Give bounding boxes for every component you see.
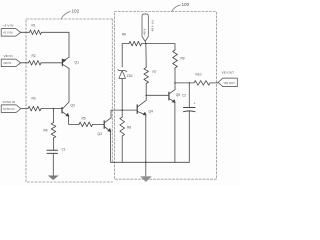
svg-text:R8: R8 [127, 126, 131, 130]
resistor R7 [144, 68, 149, 84]
node Q5 base junction [145, 95, 147, 97]
wire C1 to ground [52, 153, 54, 176]
svg-text:102: 102 [72, 9, 80, 14]
svg-text:C2: C2 [182, 94, 186, 98]
wire Q2 emitter to R5 [69, 116, 79, 124]
wire R5 to Q3 base [93, 123, 105, 125]
label 102 leader [61, 12, 71, 20]
wire Q3 emitter down to rail [110, 131, 112, 162]
wire C2 to rail [188, 111, 190, 162]
svg-text:SYNC IN: SYNC IN [3, 107, 14, 111]
resistor R4 [51, 123, 56, 139]
wire supply junction down to R7 [145, 44, 147, 68]
svg-text:ZD1: ZD1 [127, 74, 133, 78]
wire R4 to C1 [53, 138, 55, 150]
wire Q4 emitter to rail [145, 115, 147, 162]
svg-text:Q1: Q1 [75, 61, 80, 65]
wire R6 corner down to zener [121, 44, 123, 67]
svg-text:R7: R7 [153, 70, 157, 74]
svg-text:C1: C1 [62, 148, 66, 152]
svg-text:+: + [194, 102, 196, 106]
input flag J1 (+5V) [1, 29, 20, 36]
ground (left) [48, 176, 58, 180]
transistor Q1 [61, 59, 63, 66]
transistor Q3 [103, 121, 105, 129]
capacitor C1 [47, 150, 58, 153]
ground (right) [141, 177, 152, 182]
svg-text:Q2: Q2 [71, 104, 76, 108]
wire supply rail left [122, 43, 146, 45]
svg-text:Q4: Q4 [149, 110, 154, 114]
transistor Q5 [168, 92, 170, 100]
wire flag tip to supply rail [144, 41, 147, 43]
svg-text:100: 100 [182, 2, 190, 7]
dashed box 102 [26, 19, 112, 182]
resistor R1 [30, 30, 42, 35]
node output junction [174, 82, 176, 84]
wire zener down through node to R8 [121, 78, 123, 117]
svg-text:R2: R2 [32, 54, 36, 58]
resistor R2 [29, 61, 42, 66]
svg-text:R10: R10 [196, 73, 202, 77]
supply flag (+48V) [142, 14, 148, 41]
wire output node down to Q5 collector [174, 83, 176, 90]
svg-text:R9: R9 [181, 57, 185, 61]
transistor Q4 [136, 105, 138, 114]
dashed box 100 [115, 12, 217, 180]
wire R9 to output node [174, 68, 176, 83]
wire R7 to Q4 collector [145, 84, 147, 101]
wire R3 to Q2 base [41, 108, 62, 110]
svg-text:+5 V IN: +5 V IN [3, 24, 13, 28]
wire Q1 collector to Q2 collector [68, 68, 70, 102]
node rail/ground [145, 161, 147, 163]
svg-text:Q5: Q5 [176, 93, 181, 97]
svg-text:R6: R6 [122, 33, 126, 37]
wire R1 to Q1 emitter [42, 32, 70, 57]
svg-text:+5 V IN: +5 V IN [3, 31, 12, 35]
transistor Q2 [61, 108, 63, 114]
wire Q3 collector up and right to Q4 base [111, 110, 137, 118]
wire flag1 to R1 [21, 31, 30, 33]
wire R2 to Q1 base [41, 62, 62, 64]
wire flag3 to R3 [21, 108, 28, 110]
wire rail to ground [145, 162, 147, 177]
svg-text:48 V (+): 48 V (+) [151, 20, 155, 31]
svg-text:R5: R5 [82, 117, 86, 121]
svg-text:Q3: Q3 [98, 132, 103, 136]
resistor R9 [173, 50, 178, 68]
wire Q4 collector node to Q5 base [146, 94, 169, 96]
resistor R6 [129, 41, 142, 46]
svg-text:VID OUT: VID OUT [224, 81, 236, 85]
resistor R10 [194, 81, 210, 86]
wire output node to R10 [175, 82, 194, 84]
bottom rail wire [111, 161, 190, 163]
output flag (VID OUT) [218, 78, 237, 87]
label 100 leader [172, 5, 181, 12]
capacitor C2 [188, 83, 190, 108]
wire Q5 emitter to rail [174, 102, 176, 162]
resistor R8 [120, 117, 125, 136]
resistor R3 [28, 106, 41, 111]
input flag J3 (SYNC) [1, 105, 21, 113]
wire junction down to R4 [53, 109, 55, 123]
svg-text:R4: R4 [44, 129, 48, 133]
input flag J2 (VID IN) [1, 59, 20, 67]
svg-text:VID IN: VID IN [4, 54, 13, 58]
resistor R5 [79, 122, 93, 127]
wire R8 to rail [121, 136, 123, 162]
node R4 junction [53, 108, 55, 110]
wire R10 to output flag [210, 82, 218, 84]
svg-text:VID OUT: VID OUT [222, 71, 235, 75]
svg-text:R3: R3 [32, 97, 36, 101]
svg-text:VID IN: VID IN [3, 61, 11, 65]
svg-text:R1: R1 [32, 24, 36, 28]
svg-text:SYNC IN: SYNC IN [3, 100, 16, 104]
wire flag2 to R2 [21, 62, 29, 64]
wire supply rail right to R9 [146, 44, 175, 50]
node supply junction [145, 43, 147, 45]
node zener/R8/base wire [121, 109, 123, 111]
svg-text:+48 V: +48 V [143, 28, 147, 36]
zener diode D1 [118, 70, 127, 72]
